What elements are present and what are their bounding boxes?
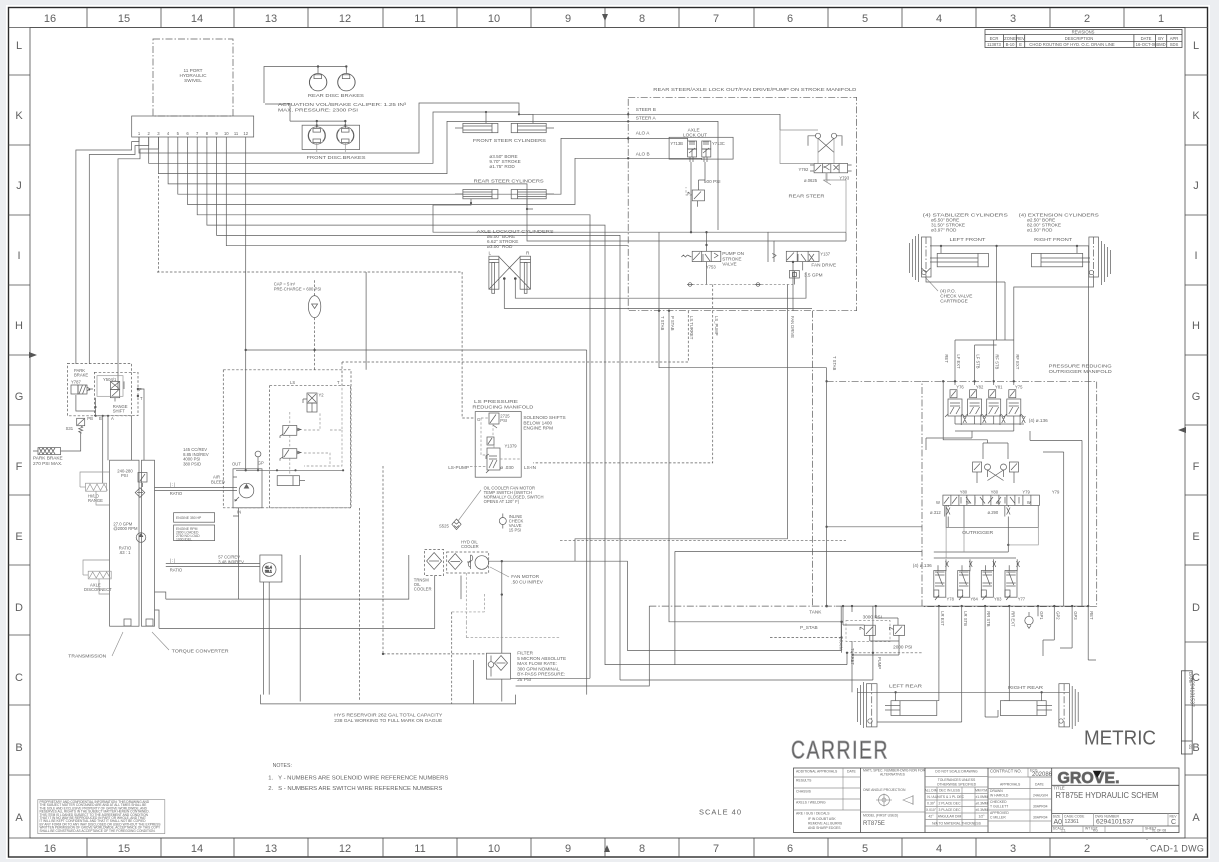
svg-text:W: W xyxy=(966,500,970,505)
svg-text:KG: KG xyxy=(1093,829,1098,833)
filter outlet xyxy=(501,679,503,701)
svg-text:MODEL (FIRST USED): MODEL (FIRST USED) xyxy=(863,814,898,818)
svg-text:STEER A: STEER A xyxy=(636,116,657,121)
svg-text:GP: GP xyxy=(258,461,264,466)
right grid letters xyxy=(1192,40,1201,824)
left grid band xyxy=(9,75,31,775)
third angle projection symbol xyxy=(879,795,890,806)
svg-text:C MILLER: C MILLER xyxy=(990,816,1006,820)
svg-text:STROKE: STROKE xyxy=(722,256,741,261)
svg-text:PUMP: PUMP xyxy=(877,657,882,669)
scale row xyxy=(1053,827,1166,833)
svg-text:Y80: Y80 xyxy=(991,490,999,495)
RET wire xyxy=(943,381,987,443)
svg-text:15: 15 xyxy=(118,13,130,25)
fan blades xyxy=(467,555,473,569)
range shift port dots xyxy=(95,415,97,417)
top grid numbers xyxy=(44,13,1164,25)
bus junction dots xyxy=(842,605,844,607)
centering arrow bottom xyxy=(604,845,610,852)
svg-text:LOCK OUT: LOCK OUT xyxy=(683,133,707,138)
svg-text:5: 5 xyxy=(862,843,868,855)
svg-text:A: A xyxy=(111,416,114,421)
inline check valve xyxy=(499,514,506,529)
outrigger bank W springs xyxy=(936,500,1031,505)
outrigger manifold dash-dot box xyxy=(922,381,1097,606)
LSPR relief valve xyxy=(489,413,499,428)
left rear cylinder xyxy=(885,701,937,716)
svg-text:FRONT STEER CYLINDERS: FRONT STEER CYLINDERS xyxy=(473,138,546,143)
centering arrow top xyxy=(602,14,608,21)
svg-text:PB: PB xyxy=(87,416,93,421)
charge pump circle xyxy=(136,533,146,543)
svg-text:RANGE: RANGE xyxy=(88,498,103,503)
500 psi relief valve xyxy=(688,190,705,207)
temp switch S525 xyxy=(452,519,461,530)
svg-text:Y1379: Y1379 xyxy=(505,444,518,449)
fan flow control xyxy=(790,270,800,278)
svg-text:LEFT FRONT: LEFT FRONT xyxy=(950,237,986,242)
svg-text:Y787: Y787 xyxy=(71,380,81,385)
svg-text:±1.0MM: ±1.0MM xyxy=(975,795,987,799)
bottom grid band xyxy=(9,838,1209,857)
svg-text:ALO A: ALO A xyxy=(636,131,650,136)
LS pressure reducing manifold box xyxy=(475,412,521,478)
svg-text:FILTER: FILTER xyxy=(517,651,533,656)
second pump box xyxy=(260,555,282,582)
axle lockout cylinders label xyxy=(477,229,554,249)
svg-text:TITLE: TITLE xyxy=(1053,786,1065,791)
svg-text:BRAKE: BRAKE xyxy=(74,373,88,378)
svg-text:16-OCT-06: 16-OCT-06 xyxy=(1136,42,1157,47)
crossover X xyxy=(977,470,1014,483)
trnsm cooler bottom wire xyxy=(299,555,301,702)
svg-text:FRONT DISC.BRAKES: FRONT DISC.BRAKES xyxy=(307,155,366,160)
left front stabilizer stack xyxy=(910,234,932,282)
svg-text:VALVE: VALVE xyxy=(722,262,736,267)
svg-text:REDUCING MANIFOLD: REDUCING MANIFOLD xyxy=(472,404,534,409)
svg-text:38.1: 38.1 xyxy=(265,570,272,574)
main pump circle xyxy=(235,483,254,501)
svg-text:SCALE 40: SCALE 40 xyxy=(699,808,742,817)
park brake labels xyxy=(71,368,117,385)
hyd cooler diamond xyxy=(448,554,462,570)
rear disc brake left xyxy=(309,74,327,91)
ratio 1:1 lower line xyxy=(166,564,260,567)
svg-text:10: 10 xyxy=(224,131,229,136)
accumulator tie line xyxy=(246,349,315,351)
svg-text:@2000 RPM: @2000 RPM xyxy=(113,526,138,531)
svg-text:FAN DRIVE: FAN DRIVE xyxy=(811,263,836,268)
wire port1 steer B xyxy=(139,103,628,153)
svg-text:ø.312: ø.312 xyxy=(930,510,941,515)
svg-text:DISCONNECT: DISCONNECT xyxy=(84,587,112,592)
svg-text:DATE: DATE xyxy=(1141,36,1152,41)
stabilizer lower links xyxy=(926,277,1094,340)
park brake valve Y504 xyxy=(110,381,119,401)
svg-text:113873: 113873 xyxy=(987,42,1001,47)
svg-text:BY-PASS PRESSURE:: BY-PASS PRESSURE: xyxy=(517,672,565,677)
svg-text:ACTUATION VOL/BRAKE CALIPER: 1: ACTUATION VOL/BRAKE CALIPER: 1.25 IN³ xyxy=(278,102,407,107)
LS manifold internal dashes xyxy=(470,418,520,467)
svg-text:UNITS & 1 PL DEC: UNITS & 1 PL DEC xyxy=(935,795,965,799)
svg-text:10: 10 xyxy=(488,13,500,25)
svg-text:2 PLACE DEC: 2 PLACE DEC xyxy=(938,802,961,806)
front steer cylinder left xyxy=(455,123,498,132)
svg-text:RIGHT FRONT: RIGHT FRONT xyxy=(1034,237,1072,242)
svg-text:±0.3MM: ±0.3MM xyxy=(975,808,987,812)
long dashed drain tie xyxy=(560,539,846,541)
svg-text:LR EXT: LR EXT xyxy=(940,611,945,626)
engine box xyxy=(174,513,215,541)
front steer cylinder right xyxy=(511,123,554,132)
svg-text:GROVE.: GROVE. xyxy=(1058,770,1120,787)
svg-text:6: 6 xyxy=(787,13,793,25)
svg-text:16: 16 xyxy=(44,13,56,25)
svg-text:CAD-1 DWG: CAD-1 DWG xyxy=(1150,844,1204,854)
filter diamond xyxy=(495,656,508,671)
right rear stack xyxy=(1059,684,1078,729)
LS valve 2 xyxy=(280,449,302,461)
col dividers xyxy=(860,768,862,833)
svg-text:-: - xyxy=(1146,837,1148,843)
svg-text:ZONE: ZONE xyxy=(1004,36,1016,41)
svg-text:Y137: Y137 xyxy=(820,252,830,257)
LS T labels xyxy=(290,380,340,385)
svg-text:270 PSI MAX.: 270 PSI MAX. xyxy=(33,461,62,466)
accumulator dashed riser xyxy=(314,279,316,370)
pump port labels xyxy=(232,461,264,515)
pump to LS dashed box xyxy=(223,370,351,508)
wire port10 xyxy=(226,137,628,246)
svg-text:APR: APR xyxy=(1170,36,1179,41)
svg-text:T STAB: T STAB xyxy=(832,356,837,370)
svg-text:Y753: Y753 xyxy=(706,265,716,270)
svg-text:E: E xyxy=(1019,42,1022,47)
manifold bottom dashed drain xyxy=(692,284,793,286)
svg-text:Y713C: Y713C xyxy=(712,141,725,146)
outrigger bank enclosure xyxy=(946,505,1038,545)
svg-text:Y713B: Y713B xyxy=(670,141,683,146)
svg-text:E: E xyxy=(15,531,22,543)
svg-text:LR STB: LR STB xyxy=(963,611,968,626)
accumulator note xyxy=(274,282,322,292)
axle lockout cylinder R xyxy=(520,256,530,293)
tank inlet 473 xyxy=(473,660,475,704)
svg-text:REMOVE ALL BURRS: REMOVE ALL BURRS xyxy=(808,822,843,826)
wire park brake P xyxy=(118,137,158,391)
dashed drain horizontal xyxy=(383,653,486,655)
front steer specs xyxy=(489,154,520,169)
front disc brake outlets xyxy=(317,143,346,152)
svg-text:PRESSURE REDUCING: PRESSURE REDUCING xyxy=(1049,364,1112,369)
svg-text:B: B xyxy=(99,416,102,421)
svg-text:01 OF 08: 01 OF 08 xyxy=(1152,829,1166,833)
svg-text:B: B xyxy=(15,742,22,754)
svg-text:AND SHARP EDGES: AND SHARP EDGES xyxy=(808,826,841,830)
axle lockout drop wires xyxy=(504,272,812,308)
svg-text:J: J xyxy=(16,180,22,192)
svg-text:6294101537: 6294101537 xyxy=(1096,819,1134,826)
3000 psi relief valves dashed box xyxy=(846,621,890,642)
svg-text:LS-IN: LS-IN xyxy=(524,465,536,470)
svg-text:ø1.50" ROD: ø1.50" ROD xyxy=(1027,228,1053,233)
solenoid shifts note xyxy=(523,415,565,431)
range shift ports xyxy=(87,387,143,421)
pump gauge xyxy=(255,451,261,470)
Y78 cartridge xyxy=(934,559,949,600)
svg-text:BMD: BMD xyxy=(1156,42,1165,47)
wire drain into pump box xyxy=(365,272,367,370)
ratio label .63 xyxy=(119,546,132,556)
wire LS-PUMP dashed xyxy=(533,285,713,463)
svg-text:Y83: Y83 xyxy=(994,597,1002,602)
svg-text:CHASSIS: CHASSIS xyxy=(796,790,812,794)
svg-text:SIZE: SIZE xyxy=(1053,814,1061,818)
valve bottom bus xyxy=(955,416,1024,438)
svg-text:CARTRIDGE: CARTRIDGE xyxy=(940,299,968,304)
svg-text:BLEED: BLEED xyxy=(211,479,225,484)
LS pressure reducing manifold label xyxy=(472,399,534,409)
svg-text:CHGD ROUTING OF HYD. O.C. DRAI: CHGD ROUTING OF HYD. O.C. DRAIN LINE xyxy=(1029,42,1115,47)
svg-text:2: 2 xyxy=(1084,13,1090,25)
pump in wire xyxy=(233,508,239,599)
rear cylinder feed line xyxy=(857,691,1069,693)
svg-text:A0: A0 xyxy=(1054,819,1063,826)
main pump specs xyxy=(183,447,209,466)
svg-text:K: K xyxy=(15,110,23,122)
svg-text:3.5 GPM: 3.5 GPM xyxy=(804,273,823,278)
svg-text:LS.TURRET: LS.TURRET xyxy=(689,316,694,340)
svg-text:F: F xyxy=(1193,461,1200,473)
Y2 valve xyxy=(303,393,317,412)
svg-text:B-10: B-10 xyxy=(1006,42,1016,47)
svg-text:W HAROLD: W HAROLD xyxy=(990,794,1009,798)
svg-text:AXELS / WELDING: AXELS / WELDING xyxy=(796,801,826,805)
svg-text:RT875E HYDRAULIC SCHEM: RT875E HYDRAULIC SCHEM xyxy=(1056,791,1159,800)
svg-text:RIGHT REAR: RIGHT REAR xyxy=(1008,685,1044,690)
front steer feed wires xyxy=(486,112,533,123)
svg-text:LS-PUMP: LS-PUMP xyxy=(448,465,469,470)
svg-text:RATIO: RATIO xyxy=(170,491,183,496)
svg-text:.50 CU IN/REV: .50 CU IN/REV xyxy=(511,579,543,584)
relief valve B xyxy=(890,625,905,635)
wire port12 trunk to pump xyxy=(245,137,247,470)
svg-text:ALL DIM: ALL DIM xyxy=(924,789,937,793)
axle lockout valve block xyxy=(669,137,733,159)
pump on stroke label xyxy=(722,251,744,267)
filter label xyxy=(517,651,566,683)
svg-text:METRIC: METRIC xyxy=(1084,728,1156,750)
svg-text:ø1.75" ROD: ø1.75" ROD xyxy=(489,164,515,169)
extra return corner xyxy=(675,551,922,664)
svg-text:PSI: PSI xyxy=(500,418,507,423)
accumulator trunk to reservoir xyxy=(315,350,587,695)
svg-text:9: 9 xyxy=(565,13,571,25)
svg-text:(4) ø.136: (4) ø.136 xyxy=(913,563,932,568)
right trunk RET riser xyxy=(1088,246,1090,606)
transmission bottom notches xyxy=(124,619,153,626)
LS manifold dashed box xyxy=(270,386,351,508)
svg-text:P: P xyxy=(139,387,142,392)
crossover check right xyxy=(1001,462,1019,472)
svg-text:30APR04: 30APR04 xyxy=(1033,805,1048,809)
svg-text:F: F xyxy=(16,461,23,473)
svg-text:W: W xyxy=(997,500,1001,505)
svg-text:TANK: TANK xyxy=(809,610,822,615)
svg-text:12361: 12361 xyxy=(1065,819,1080,825)
wire T STAB xyxy=(659,232,827,368)
svg-text:CONTRACT NO.: CONTRACT NO. xyxy=(990,769,1022,774)
svg-text:30APR04: 30APR04 xyxy=(1033,816,1048,820)
reservoir label xyxy=(334,713,442,723)
svg-text:7: 7 xyxy=(713,843,719,855)
svg-text:APPROVALS: APPROVALS xyxy=(1000,783,1021,787)
trans return lines xyxy=(155,555,435,628)
svg-text:TURRET: TURRET xyxy=(850,648,855,665)
drawing number vertical tab right border xyxy=(1181,671,1194,754)
crossover link wires xyxy=(926,438,1008,459)
filter box xyxy=(486,653,510,679)
svg-text:RATIO: RATIO xyxy=(170,568,183,573)
svg-text:15 PSI: 15 PSI xyxy=(509,528,522,533)
po check cartridge label xyxy=(940,289,972,304)
front disc brakes wire xyxy=(265,104,345,128)
svg-text:RF EXT: RF EXT xyxy=(1015,354,1020,369)
wire port8 to turret xyxy=(207,137,847,665)
col3 tolerances xyxy=(935,770,978,787)
revisions table xyxy=(985,30,1182,48)
svg-text:DEC IN LESS: DEC IN LESS xyxy=(939,789,961,793)
main pump box xyxy=(233,469,262,508)
wire port5 ALO A xyxy=(178,137,628,194)
svg-text:FAN DRIVE: FAN DRIVE xyxy=(790,316,795,338)
hyd oil cooler label xyxy=(461,540,479,550)
rear disc brake right xyxy=(338,74,356,91)
rear cylinder wires xyxy=(877,606,1096,722)
svg-text:RT875E: RT875E xyxy=(863,821,885,827)
svg-text:RF STB: RF STB xyxy=(995,354,1000,369)
LSPR reducing valve Y1379 xyxy=(486,437,500,473)
svg-text:L: L xyxy=(489,251,492,256)
park brake module box xyxy=(68,363,132,415)
svg-text:380 PSID: 380 PSID xyxy=(183,461,201,466)
svg-text:15: 15 xyxy=(118,843,130,855)
dashed drain tie lower xyxy=(770,637,922,652)
svg-text:3.48 IN3/REV: 3.48 IN3/REV xyxy=(218,559,244,564)
outrigger manifold drop wires xyxy=(955,340,1014,385)
svg-text:LS: LS xyxy=(290,380,295,385)
svg-text:COOLER: COOLER xyxy=(414,587,432,592)
svg-text:SHIFT: SHIFT xyxy=(113,409,126,414)
rear steer riser wires xyxy=(780,130,846,232)
svg-text:3000 PSI: 3000 PSI xyxy=(863,615,882,620)
svg-text:Y79: Y79 xyxy=(1052,490,1060,495)
svg-text:ONE ANGLE PROJECTION: ONE ANGLE PROJECTION xyxy=(863,788,906,792)
svg-text:J: J xyxy=(1193,180,1199,192)
park brake valve Y787 xyxy=(71,385,93,394)
svg-text:01: 01 xyxy=(1188,745,1193,750)
bottom grid numbers xyxy=(44,843,1090,855)
wire port4 rear steer xyxy=(168,137,527,209)
LS valve 1 xyxy=(280,426,302,439)
wire P STAB xyxy=(669,311,842,653)
svg-text:CHECKED: CHECKED xyxy=(990,800,1007,804)
svg-text:S31: S31 xyxy=(66,426,74,431)
svg-text:REAR DISC BRAKES: REAR DISC BRAKES xyxy=(308,93,364,98)
svg-text:| : |: | : | xyxy=(170,482,176,487)
tank return to reservoir xyxy=(516,606,650,686)
svg-text:ø .030: ø .030 xyxy=(500,465,514,470)
svg-text:7: 7 xyxy=(713,13,719,25)
main lower bus xyxy=(836,605,1089,607)
axle disconnect wire xyxy=(83,560,110,594)
svg-text:ENGINE 350 HP: ENGINE 350 HP xyxy=(176,516,202,520)
hi-lo wire xyxy=(80,472,110,505)
svg-text:Y79: Y79 xyxy=(1022,490,1030,495)
left grid letters xyxy=(15,40,24,824)
svg-text:11: 11 xyxy=(234,131,239,136)
svg-text:H: H xyxy=(1192,320,1200,332)
notes xyxy=(268,763,449,792)
svg-text:2000 PSI: 2000 PSI xyxy=(893,645,912,650)
svg-text:T STAB: T STAB xyxy=(660,316,665,330)
axle lockout cylinder L xyxy=(489,256,499,293)
S31 switch xyxy=(77,418,85,433)
svg-text:STEER B: STEER B xyxy=(636,107,656,112)
svg-text:REAR STEER: REAR STEER xyxy=(789,194,826,199)
wire trans column xyxy=(131,416,133,461)
svg-text:6294101537: 6294101537 xyxy=(1189,678,1195,707)
right grid band xyxy=(1185,75,1208,775)
rear steer valve Y792 Y793 xyxy=(810,164,852,173)
svg-text:238 GAL WORKING TO FULL MARK O: 238 GAL WORKING TO FULL MARK ON GAGUE xyxy=(334,718,442,723)
svg-text:4: 4 xyxy=(936,13,942,25)
hi/lo range symbol xyxy=(80,483,108,491)
rear disc brakes wire xyxy=(264,67,346,104)
svg-text:W: W xyxy=(1027,500,1031,505)
title block xyxy=(794,768,1180,833)
park brake wires xyxy=(61,395,108,451)
rear steer manifold box xyxy=(628,97,856,310)
svg-text:ANGULAR DIM: ANGULAR DIM xyxy=(938,815,962,819)
svg-text:PSI: PSI xyxy=(121,473,128,478)
svg-text:PUMP ON: PUMP ON xyxy=(722,251,744,256)
svg-text:D: D xyxy=(1192,602,1200,614)
left rear stack xyxy=(858,682,878,728)
right front horizontal cylinder xyxy=(1032,253,1091,266)
svg-text:TOLERANCES UNLESS: TOLERANCES UNLESS xyxy=(938,778,976,782)
right rear cylinder xyxy=(1000,701,1052,716)
proprietary legal text block xyxy=(38,800,165,834)
svg-text:G: G xyxy=(15,391,24,403)
svg-text:ø3.97" ROD: ø3.97" ROD xyxy=(931,228,957,233)
ECO cell xyxy=(1030,769,1038,773)
svg-text:ø.290: ø.290 xyxy=(988,510,999,515)
svg-text:DRAWN: DRAWN xyxy=(990,789,1003,793)
svg-text:E: E xyxy=(1192,531,1199,543)
axle lockout cross wires xyxy=(489,257,531,290)
svg-text:13: 13 xyxy=(265,13,277,25)
svg-text:LS PRESSURE: LS PRESSURE xyxy=(474,399,518,404)
pump on stroke valve xyxy=(681,251,720,261)
svg-text:P STAB: P STAB xyxy=(670,316,675,331)
temp switch leader xyxy=(458,490,481,521)
svg-text:REV: REV xyxy=(1016,36,1025,41)
orifice X marks under valves xyxy=(961,415,1025,426)
rear steer feed wires xyxy=(433,199,774,262)
left col rows xyxy=(794,776,861,778)
